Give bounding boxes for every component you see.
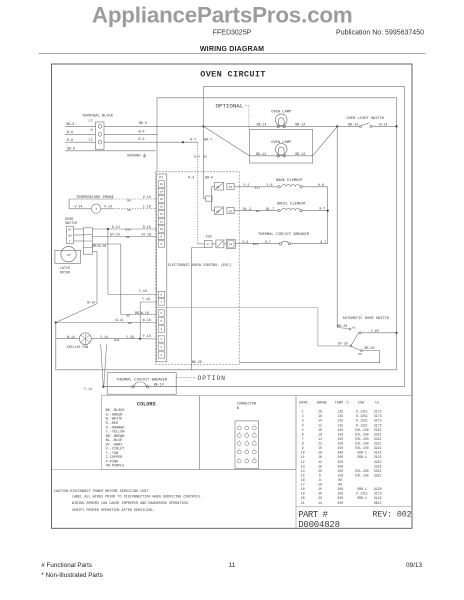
svg-text:# Functional Parts: # Functional Parts (41, 562, 92, 569)
svg-text:P2: P2 (229, 186, 233, 189)
svg-text:ELECTRONIC OVEN CONTROL (EOC): ELECTRONIC OVEN CONTROL (EOC) (168, 263, 232, 268)
svg-text:Y-14: Y-14 (100, 335, 108, 339)
svg-text:GR-9: GR-9 (67, 146, 75, 150)
svg-text:BK-0: BK-0 (139, 121, 147, 125)
svg-text:14: 14 (301, 469, 305, 473)
svg-text:7: 7 (161, 301, 163, 304)
svg-text:R-3: R-3 (188, 175, 194, 179)
svg-text:250: 250 (337, 460, 343, 464)
svg-text:14: 14 (246, 456, 249, 459)
svg-text:3122: 3122 (374, 496, 382, 500)
svg-text:R-8: R-8 (67, 138, 73, 142)
svg-text:WIRE: WIRE (299, 402, 307, 406)
svg-text:16: 16 (318, 432, 322, 436)
svg-text:9: 9 (161, 236, 163, 239)
svg-text:VERIFY PROPER OPERATION AFTER: VERIFY PROPER OPERATION AFTER SERVICING. (72, 509, 155, 513)
svg-text:L1: L1 (89, 119, 93, 123)
svg-text:OVEN LIGHT SWITCH: OVEN LIGHT SWITCH (347, 117, 385, 121)
svg-text:3: 3 (302, 419, 304, 423)
svg-text:CAUTION:DISCONNECT POWER BEFOR: CAUTION:DISCONNECT POWER BEFORE SERVICIN… (54, 490, 151, 494)
svg-text:BR-20: BR-20 (365, 346, 375, 350)
svg-text:D.1251: D.1251 (356, 410, 368, 414)
svg-text:14: 14 (318, 419, 322, 423)
svg-text:3173: 3173 (374, 410, 382, 414)
svg-text:13: 13 (301, 464, 305, 468)
svg-text:0-9: 0-9 (242, 240, 248, 244)
svg-text:3173: 3173 (374, 492, 382, 496)
svg-text:SRN-1: SRN-1 (357, 487, 367, 491)
svg-text:LABEL ALL WIRES PRIOR TO DISCO: LABEL ALL WIRES PRIOR TO DISCONNECTION W… (72, 495, 202, 499)
svg-text:UL: UL (375, 402, 379, 406)
svg-text:10: 10 (318, 483, 322, 487)
svg-text:3321: 3321 (374, 437, 382, 441)
svg-text:15: 15 (253, 456, 256, 459)
svg-text:D.1251: D.1251 (356, 492, 368, 496)
svg-text:6: 6 (302, 432, 304, 436)
svg-text:NO: NO (359, 353, 363, 356)
svg-text:15: 15 (301, 473, 305, 477)
svg-text:MOTOR: MOTOR (60, 271, 70, 275)
svg-text:0-7: 0-7 (265, 240, 271, 244)
svg-text:B1: B1 (204, 155, 208, 158)
svg-text:8: 8 (319, 473, 321, 477)
svg-text:1-18: 1-18 (143, 205, 151, 209)
svg-text:R-7: R-7 (190, 137, 196, 141)
svg-text:B4: B4 (256, 210, 260, 213)
svg-text:105: 105 (337, 492, 343, 496)
svg-text:5: 5 (161, 320, 163, 323)
svg-text:12: 12 (318, 423, 322, 427)
svg-text:3252: 3252 (374, 464, 382, 468)
svg-text:3173: 3173 (374, 414, 382, 418)
svg-text:10: 10 (301, 451, 305, 455)
svg-text:3252: 3252 (374, 460, 382, 464)
svg-text:DOOR: DOOR (65, 217, 73, 221)
svg-text:200: 200 (337, 501, 343, 505)
svg-text:18: 18 (160, 183, 164, 186)
svg-text:RD: RD (127, 209, 131, 212)
svg-text:11: 11 (160, 221, 164, 224)
svg-text:GROUND: GROUND (127, 155, 141, 159)
svg-text:BL-3: BL-3 (243, 207, 251, 211)
svg-text:10: 10 (318, 446, 322, 450)
svg-text:1: 1 (161, 354, 163, 357)
svg-text:14: 14 (318, 437, 322, 441)
svg-text:3321: 3321 (374, 442, 382, 446)
svg-text:W-9: W-9 (139, 129, 145, 133)
svg-text:150: 150 (337, 469, 343, 473)
svg-text:0-7: 0-7 (319, 207, 325, 211)
svg-text:8: 8 (302, 442, 304, 446)
svg-text:3321: 3321 (374, 446, 382, 450)
svg-text:BR-0: BR-0 (205, 175, 213, 179)
svg-text:150: 150 (337, 428, 343, 432)
svg-text:OPTION: OPTION (198, 375, 226, 382)
svg-text:P4: P4 (229, 244, 233, 247)
svg-text:OVEN CIRCUIT: OVEN CIRCUIT (200, 70, 266, 80)
svg-text:3321: 3321 (374, 428, 382, 432)
svg-text:60: 60 (338, 483, 342, 487)
svg-text:3: 3 (254, 423, 256, 426)
svg-text:D0004828: D0004828 (298, 520, 340, 530)
svg-text:18: 18 (318, 410, 322, 414)
svg-text:16: 16 (160, 198, 164, 201)
svg-text:D.1251: D.1251 (356, 423, 368, 427)
svg-text:EXL-150: EXL-150 (355, 473, 368, 477)
svg-text:13: 13 (160, 206, 164, 209)
svg-text:9: 9 (254, 439, 256, 442)
svg-text:7: 7 (302, 437, 304, 441)
svg-text:150: 150 (337, 437, 343, 441)
svg-text:K1: K1 (217, 186, 221, 189)
svg-text:OVEN LAMP: OVEN LAMP (271, 141, 292, 145)
svg-text:EXL-150: EXL-150 (355, 428, 368, 432)
svg-text:NC: NC (68, 229, 72, 232)
svg-text:W-14: W-14 (87, 300, 95, 304)
svg-text:BK-14: BK-14 (256, 152, 266, 156)
svg-text:BROIL ELEMENT: BROIL ELEMENT (277, 203, 307, 207)
svg-text:RD: RD (127, 200, 131, 203)
svg-text:3321: 3321 (374, 432, 382, 436)
svg-text:D.1251: D.1251 (356, 414, 368, 418)
svg-text:V-14: V-14 (75, 204, 83, 208)
svg-text:EXL-150: EXL-150 (355, 442, 368, 446)
svg-text:B/3: B/3 (195, 154, 201, 158)
svg-text:16: 16 (318, 414, 322, 418)
svg-text:11: 11 (246, 447, 249, 450)
svg-text:N: N (91, 128, 93, 132)
svg-text:C: C (69, 240, 71, 243)
svg-text:3173: 3173 (374, 419, 382, 423)
svg-text:12: 12 (318, 460, 322, 464)
svg-text:CONNECTOR: CONNECTOR (237, 403, 257, 407)
svg-text:B: B (237, 407, 240, 411)
svg-text:150: 150 (337, 432, 343, 436)
svg-text:60: 60 (338, 478, 342, 482)
svg-text:Y-18: Y-18 (143, 334, 151, 338)
svg-text:PART #: PART # (298, 510, 328, 520)
svg-text:2: 2 (161, 346, 163, 349)
svg-text:K2: K2 (217, 211, 221, 214)
svg-text:150: 150 (337, 473, 343, 477)
svg-text:20: 20 (318, 469, 322, 473)
svg-text:OPTIONAL: OPTIONAL (216, 103, 244, 110)
svg-text:8: 8 (319, 478, 321, 482)
svg-text:4: 4 (302, 423, 304, 427)
svg-text:BAKE ELEMENT: BAKE ELEMENT (276, 179, 303, 183)
svg-text:21: 21 (301, 501, 305, 505)
svg-text:AUTOMATIC DOOR SWITCH: AUTOMATIC DOOR SWITCH (343, 317, 389, 321)
svg-text:8: 8 (161, 243, 163, 246)
svg-text:8: 8 (246, 439, 248, 442)
svg-text:W-14: W-14 (67, 335, 75, 339)
svg-text:EXL-150: EXL-150 (355, 469, 368, 473)
svg-text:D-18: D-18 (143, 225, 151, 229)
svg-text:3122: 3122 (374, 451, 382, 455)
svg-text:14: 14 (160, 191, 164, 194)
svg-text:9120: 9120 (374, 487, 382, 491)
svg-text:09/13: 09/13 (406, 562, 422, 569)
svg-text:4: 4 (161, 328, 163, 331)
svg-text:THERMAL CIRCUIT BREAKER: THERMAL CIRCUIT BREAKER (258, 233, 310, 237)
svg-text:150: 150 (337, 442, 343, 446)
svg-text:3: 3 (161, 338, 163, 341)
svg-text:BK-20: BK-20 (192, 360, 202, 364)
svg-text:11: 11 (229, 562, 236, 569)
svg-text:3321: 3321 (374, 473, 382, 477)
svg-text:P3: P3 (229, 210, 233, 213)
svg-text:SRN-1: SRN-1 (357, 496, 367, 500)
svg-text:W-14: W-14 (116, 318, 124, 322)
svg-text:WIRING DIAGRAM: WIRING DIAGRAM (200, 46, 264, 53)
svg-text:20: 20 (318, 496, 322, 500)
svg-text:125: 125 (337, 419, 343, 423)
svg-text:BR-14: BR-14 (295, 152, 305, 156)
svg-text:TEMPERATURE PROBE: TEMPERATURE PROBE (76, 196, 114, 200)
svg-text:6: 6 (254, 431, 256, 434)
svg-text:3173: 3173 (374, 423, 382, 427)
svg-text:DLB: DLB (206, 235, 212, 239)
svg-text:GY-18: GY-18 (142, 233, 152, 237)
svg-text:0-6: 0-6 (318, 183, 324, 187)
svg-text:TERMINAL BLOCK: TERMINAL BLOCK (82, 114, 114, 118)
svg-text:18: 18 (318, 428, 322, 432)
svg-text:EXL-150: EXL-150 (355, 432, 368, 436)
svg-text:D.1251: D.1251 (356, 419, 368, 423)
svg-text:3122: 3122 (374, 455, 382, 459)
svg-text:BR/W-18: BR/W-18 (135, 311, 149, 315)
svg-text:D-14: D-14 (112, 225, 120, 229)
svg-text:N0: N0 (127, 314, 131, 317)
svg-text:Y-2: Y-2 (243, 183, 249, 187)
svg-text:8: 8 (161, 294, 163, 297)
svg-text:L2: L2 (89, 138, 93, 142)
svg-text:19: 19 (301, 492, 305, 496)
svg-text:BR-14: BR-14 (348, 122, 358, 126)
svg-text:GY-20: GY-20 (338, 341, 348, 345)
svg-text:20: 20 (318, 492, 322, 496)
svg-text:BK-7: BK-7 (204, 137, 212, 141)
svg-text:W-8: W-8 (67, 130, 73, 134)
svg-text:BK-14: BK-14 (257, 122, 267, 126)
svg-text:WIRING ERRORS CAN CAUSE IMPROP: WIRING ERRORS CAN CAUSE IMPROPER AND DAN… (72, 502, 190, 506)
svg-text:FFED3025P: FFED3025P (213, 30, 252, 37)
svg-text:W-14: W-14 (380, 122, 388, 126)
svg-text:10: 10 (238, 447, 241, 450)
svg-text:2: 2 (302, 414, 304, 418)
svg-text:125: 125 (337, 423, 343, 427)
svg-text:V-18: V-18 (143, 195, 151, 199)
svg-text:P1: P1 (159, 175, 163, 179)
svg-text:0-7: 0-7 (320, 240, 326, 244)
svg-text:20: 20 (301, 496, 305, 500)
svg-text:AppliancePartsPros.com: AppliancePartsPros.com (92, 2, 353, 27)
svg-text:Y-14: Y-14 (84, 387, 92, 391)
svg-text:4: 4 (239, 431, 241, 434)
svg-text:T: T (95, 208, 97, 211)
svg-text:BK-14: BK-14 (154, 383, 164, 387)
svg-text:10: 10 (318, 487, 322, 491)
svg-text:18: 18 (318, 451, 322, 455)
svg-text:BL-7: BL-7 (266, 207, 274, 211)
svg-text:LATCH: LATCH (60, 266, 70, 270)
svg-text:Y-18: Y-18 (139, 289, 147, 293)
svg-text:GAUGE: GAUGE (317, 402, 328, 406)
svg-text:TEMP.°C: TEMP.°C (335, 401, 350, 406)
svg-text:17: 17 (301, 483, 305, 487)
svg-text:9: 9 (302, 446, 304, 450)
svg-text:5: 5 (246, 431, 248, 434)
svg-text:12: 12 (253, 447, 256, 450)
svg-text:1: 1 (239, 423, 241, 426)
svg-text:PR-PURPLE: PR-PURPLE (106, 465, 125, 469)
svg-text:12: 12 (318, 442, 322, 446)
svg-text:Publication No: 5995637450: Publication No: 5995637450 (336, 30, 424, 37)
svg-text:18: 18 (301, 487, 305, 491)
svg-text:GY-14: GY-14 (110, 233, 120, 237)
svg-text:Y-18: Y-18 (142, 297, 150, 301)
svg-text:12: 12 (160, 213, 164, 216)
svg-text:SGR-1: SGR-1 (357, 451, 367, 455)
svg-text:EXL-150: EXL-150 (355, 446, 368, 450)
svg-text:REV: 002: REV: 002 (372, 511, 411, 520)
svg-text:150: 150 (337, 446, 343, 450)
svg-text:B9: B9 (126, 236, 130, 239)
svg-text:SWITCH: SWITCH (65, 221, 77, 225)
svg-text:3321: 3321 (374, 469, 382, 473)
svg-text:SRN-1: SRN-1 (357, 455, 367, 459)
svg-text:135: 135 (337, 414, 343, 418)
svg-text:Y-20: Y-20 (371, 329, 379, 333)
svg-text:18: 18 (318, 464, 322, 468)
svg-text:BK-9: BK-9 (67, 122, 75, 126)
svg-text:5: 5 (302, 428, 304, 432)
svg-text:7: 7 (239, 439, 241, 442)
svg-text:13: 13 (238, 456, 241, 459)
svg-text:230/110 FAN: 230/110 FAN (67, 345, 89, 349)
svg-text:10: 10 (160, 228, 164, 231)
svg-text:B11: B11 (114, 339, 120, 342)
svg-text:COLORS: COLORS (137, 402, 156, 408)
svg-text:NO: NO (68, 234, 72, 237)
svg-text:12: 12 (301, 460, 305, 464)
svg-text:250: 250 (337, 464, 343, 468)
svg-text:EXL-150: EXL-150 (355, 437, 368, 441)
svg-text:LM: LM (67, 254, 71, 257)
svg-text:200: 200 (337, 451, 343, 455)
svg-text:Y-6: Y-6 (267, 183, 273, 187)
svg-text:* Non-Illustrated Parts: * Non-Illustrated Parts (41, 572, 103, 579)
svg-text:6: 6 (161, 312, 163, 315)
svg-text:200: 200 (337, 496, 343, 500)
svg-text:200: 200 (337, 487, 343, 491)
svg-text:P7: P7 (207, 244, 211, 247)
svg-text:1: 1 (302, 410, 304, 414)
svg-text:200: 200 (337, 455, 343, 459)
svg-text:16: 16 (301, 478, 305, 482)
svg-text:BR-14: BR-14 (295, 122, 305, 126)
svg-text:9612: 9612 (374, 501, 382, 505)
svg-text:B13: B13 (255, 186, 261, 189)
svg-text:CSA: CSA (358, 402, 365, 406)
svg-text:NC: NC (353, 326, 357, 329)
svg-text:W-18: W-18 (143, 318, 151, 322)
svg-text:B10: B10 (126, 228, 132, 231)
svg-text:B14: B14 (253, 243, 259, 246)
svg-text:N0: N0 (128, 322, 132, 325)
svg-text:BR/W-18: BR/W-18 (92, 244, 106, 248)
svg-text:125: 125 (337, 410, 343, 414)
svg-text:11: 11 (301, 455, 305, 459)
svg-text:16: 16 (318, 455, 322, 459)
svg-text:Y-18: Y-18 (126, 335, 134, 339)
svg-text:14: 14 (318, 501, 322, 505)
svg-text:V-14: V-14 (104, 204, 112, 208)
svg-text:R-9: R-9 (139, 137, 145, 141)
svg-text:2: 2 (246, 423, 248, 426)
